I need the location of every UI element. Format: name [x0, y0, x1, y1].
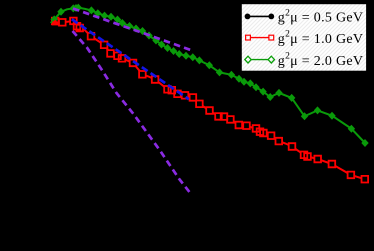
- fit line: blue dashed (tracks red curve): [72, 19, 189, 99]
- legend row 1: black line + filled circles: [245, 8, 364, 25]
- legend row 3: green line + open diamonds: [245, 52, 364, 69]
- legend box: [241, 4, 366, 72]
- red start dense cluster blob: [52, 21, 61, 25]
- fit line: violet dashed steep: [73, 31, 192, 194]
- fit line: violet dashed shallow (tracks green curve): [73, 9, 192, 51]
- curve: g2mu=1.0 GeV (red, open squares): [52, 18, 368, 183]
- legend row 2: red line + open squares: [246, 30, 364, 47]
- svg-text:g2μ = 0.5 GeV: g2μ = 0.5 GeV: [278, 8, 364, 25]
- red start marker under green: [52, 18, 59, 25]
- svg-text:g2μ = 1.0 GeV: g2μ = 1.0 GeV: [278, 30, 364, 47]
- curve: g2mu=2.0 GeV (green, filled diamonds): [51, 4, 369, 147]
- svg-text:g2μ = 2.0 GeV: g2μ = 2.0 GeV: [278, 52, 364, 69]
